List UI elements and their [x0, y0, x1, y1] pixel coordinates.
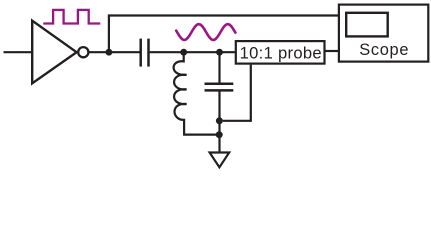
square-wave annotation — [43, 10, 100, 24]
ground — [210, 153, 230, 168]
shunt capacitor bottom plate — [205, 89, 234, 92]
svg-text:Scope: Scope — [359, 41, 409, 59]
junction node E (ground node) — [216, 131, 223, 138]
shunt capacitor top plate — [205, 82, 234, 85]
wire: inductor bottom to ground node — [183, 134, 219, 136]
wire: bubble to series capacitor — [90, 51, 140, 53]
input wire — [4, 51, 32, 53]
10:1 probe box — [236, 41, 325, 64]
wire: riser from node A to top rail — [109, 16, 340, 52]
junction node B (inductor top) — [180, 49, 187, 56]
sine-wave annotation — [176, 24, 235, 40]
inductor L1 — [174, 52, 187, 134]
wire: probe ground lead — [223, 65, 251, 121]
series capacitor left plate — [139, 39, 142, 67]
scope screen — [346, 13, 388, 37]
svg-text:10:1 probe: 10:1 probe — [240, 43, 322, 62]
inverter gate — [32, 21, 76, 84]
junction node D (probe return) — [216, 117, 223, 124]
inverter output bubble — [78, 47, 88, 57]
wire: shunt capacitor top lead — [218, 52, 220, 82]
junction node C (shunt capacitor top) — [216, 49, 223, 56]
series capacitor right plate — [147, 39, 150, 67]
wire: series capacitor to probe box — [150, 51, 236, 53]
junction node A (inverter output) — [106, 49, 113, 56]
scope box — [339, 5, 428, 62]
wire: shunt capacitor bottom to ground symbol — [218, 92, 220, 153]
wire: probe box to scope — [325, 50, 339, 52]
